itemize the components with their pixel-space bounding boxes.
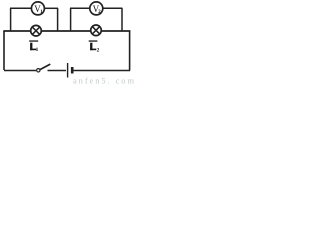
switch S (open) [37, 64, 51, 72]
svg-text:1: 1 [36, 47, 39, 53]
wire: bottom segment switch to battery [48, 70, 67, 72]
wire: voltmeter V2 loop top-right horizontal [103, 7, 123, 9]
lamp L2 [91, 25, 102, 36]
voltmeter V1 [31, 2, 44, 15]
wire: outer loop left edge [3, 31, 5, 70]
wire: main top wire right of lamp L2 [101, 30, 130, 32]
wire: main top wire left of lamp L1 [3, 30, 31, 32]
battery cell [68, 63, 73, 78]
label L1 [29, 40, 38, 53]
wire: voltmeter V2 loop right vertical [121, 8, 123, 31]
wire: outer loop right edge [129, 31, 131, 71]
svg-text:2: 2 [97, 47, 100, 53]
wire: main top wire between lamps [41, 30, 91, 32]
label L2 [89, 40, 100, 53]
wire: voltmeter V1 loop left vertical [10, 8, 12, 31]
wire: voltmeter V1 loop top-left horizontal [10, 7, 31, 9]
wire: bottom left segment to switch [4, 70, 36, 72]
wire: bottom segment battery to right corner [74, 70, 131, 72]
wire: voltmeter V2 loop top-left horizontal [70, 7, 90, 9]
wire: voltmeter V1 loop top-right horizontal [44, 7, 58, 9]
wire: voltmeter V2 loop left vertical [70, 8, 72, 31]
voltmeter V2 [90, 2, 103, 15]
svg-text:anfen5. com: anfen5. com [73, 76, 134, 86]
wire: voltmeter V1 loop right vertical [57, 8, 59, 31]
lamp L1 [31, 25, 42, 36]
